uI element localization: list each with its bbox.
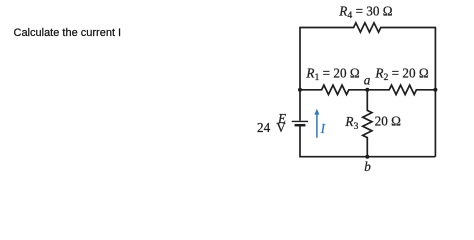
wire middle right segment	[416, 89, 436, 91]
svg-text:20 Ω: 20 Ω	[375, 114, 401, 129]
battery E long plate	[292, 120, 308, 122]
junction dot left end of middle wire	[298, 88, 302, 92]
svg-text:R4 = 30 Ω: R4 = 30 Ω	[338, 3, 392, 21]
junction dot right end of middle wire	[433, 88, 437, 92]
svg-text:Calculate the current I: Calculate the current I	[14, 27, 122, 39]
wire middle center segment (node a)	[348, 89, 390, 91]
wire left lower (battery to bottom)	[299, 126, 301, 158]
resistor R3	[363, 110, 372, 137]
svg-text:R1 = 20 Ω: R1 = 20 Ω	[305, 65, 359, 83]
svg-text:R3: R3	[344, 114, 358, 132]
svg-text:b: b	[364, 159, 371, 174]
resistor R1	[322, 85, 349, 94]
svg-text:24: 24	[257, 120, 271, 135]
wire middle left segment	[300, 89, 322, 91]
wire node a down to R3	[366, 90, 368, 111]
wire R3 down to node b	[366, 137, 368, 157]
node b junction dot	[365, 155, 369, 159]
current arrow I head	[314, 109, 319, 115]
wire left upper (top to battery)	[299, 27, 301, 121]
svg-text:R2 = 20 Ω: R2 = 20 Ω	[374, 65, 428, 83]
wire right side	[434, 27, 436, 157]
svg-text:I: I	[320, 121, 326, 136]
wire top-left segment	[300, 27, 354, 29]
battery E short plate	[295, 124, 306, 127]
svg-text:V: V	[276, 120, 286, 135]
wire bottom	[300, 156, 435, 158]
svg-text:a: a	[364, 72, 371, 87]
node a junction dot	[365, 88, 369, 92]
resistor R4	[354, 23, 381, 32]
wire top-right segment	[380, 27, 435, 29]
current arrow I shaft	[316, 114, 318, 138]
resistor R2	[389, 85, 416, 94]
